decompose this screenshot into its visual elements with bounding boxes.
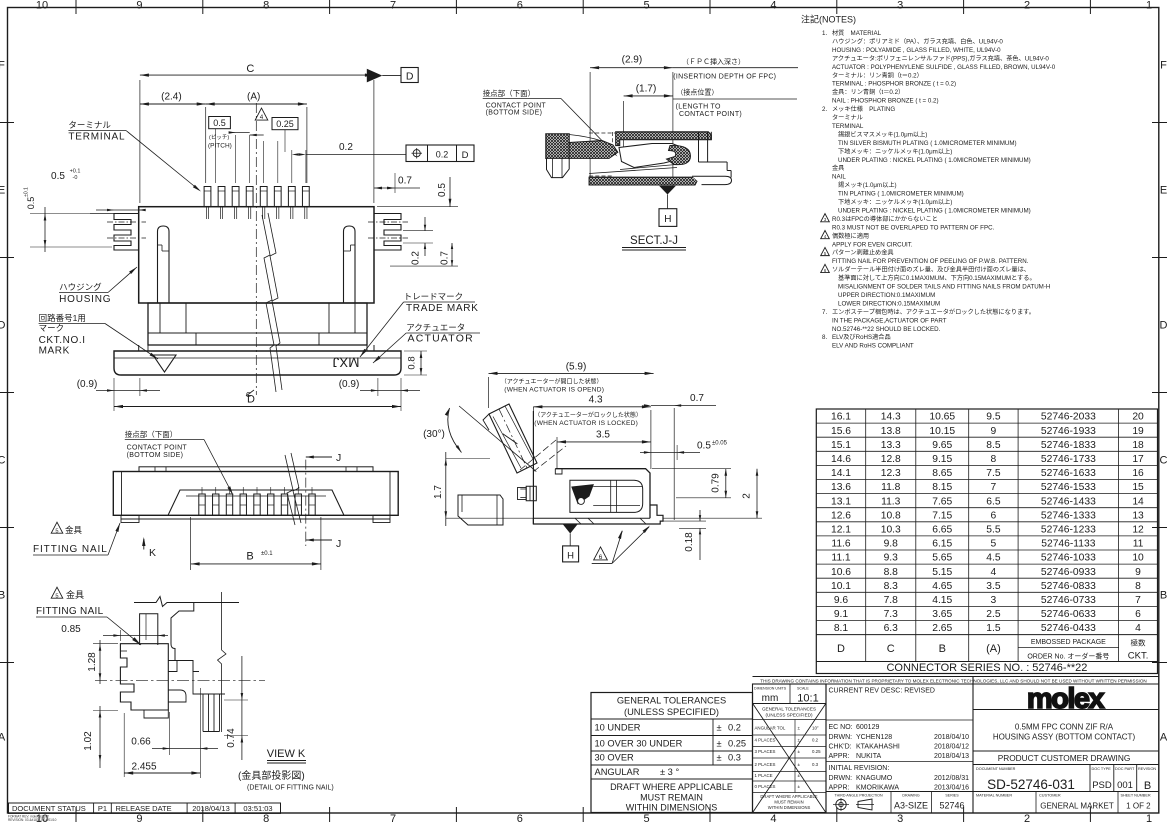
bottom view: fitting nail callout: [51, 522, 63, 533]
svg-text:2.65: 2.65: [932, 623, 952, 634]
svg-text:9.5: 9.5: [986, 412, 1001, 423]
svg-text:SCALE: SCALE: [797, 687, 809, 691]
svg-text:SECT.J-J: SECT.J-J: [630, 235, 678, 247]
crossed-out metric tolerance box: [753, 684, 827, 813]
svg-text:4: 4: [770, 813, 776, 822]
svg-text:1.02: 1.02: [83, 731, 94, 751]
svg-text:0 PLACES: 0 PLACES: [755, 784, 776, 789]
svg-text:MARK: MARK: [39, 346, 70, 357]
centerline symbol: [246, 390, 254, 396]
svg-text:アクチュエータ: アクチュエータ: [406, 323, 465, 333]
svg-text:±0.1: ±0.1: [261, 551, 273, 557]
svg-text:0.25: 0.25: [812, 749, 821, 754]
sect j-j: fpc left block hatched: [546, 134, 569, 159]
svg-text:DOCUMENT NUMBER: DOCUMENT NUMBER: [976, 767, 1016, 771]
svg-text:2: 2: [742, 493, 753, 499]
front view: terminal pins: [204, 187, 211, 207]
svg-text:MISALIGNMENT OF SOLDER TAILS A: MISALIGNMENT OF SOLDER TAILS AND FITTING…: [838, 284, 1050, 291]
svg-text:NAIL: NAIL: [832, 174, 846, 181]
svg-text:INITIAL REVISION:: INITIAL REVISION:: [829, 765, 890, 772]
svg-text:(金具部投影図): (金具部投影図): [238, 769, 305, 782]
svg-text:金具：リン青銅（t＝0.2）: 金具：リン青銅（t＝0.2）: [832, 88, 904, 96]
view k: housing top edge with break: [134, 597, 239, 607]
svg-text:9: 9: [991, 426, 997, 437]
svg-text:(0.9): (0.9): [77, 379, 98, 390]
svg-text:B: B: [1160, 590, 1167, 602]
svg-text:C: C: [1160, 455, 1167, 467]
dims (0.9) left right: [113, 378, 115, 411]
svg-text:1.5: 1.5: [986, 623, 1001, 634]
svg-text:REVISION: 03 &#183; 2014/01/10: REVISION: 03 &#183; 2014/01/10: [8, 818, 57, 822]
sect j-j: fpc arm hatched: [569, 141, 618, 159]
svg-text:13: 13: [1132, 510, 1144, 521]
svg-text:ターミナル: ターミナル: [68, 120, 111, 130]
front view: housing body: [139, 207, 374, 303]
svg-text:APPR:: APPR:: [829, 785, 850, 792]
svg-text:9.8: 9.8: [884, 539, 899, 550]
svg-text:ACTUATOR: ACTUATOR: [408, 333, 474, 345]
svg-text:3: 3: [897, 0, 903, 12]
svg-text:ORDER No. オーダー番号: ORDER No. オーダー番号: [1027, 652, 1109, 661]
sect j-j: bottom hatched bar: [589, 177, 699, 185]
side view: dim (5.9): [488, 377, 490, 408]
svg-text:MXJ: MXJ: [333, 355, 360, 370]
svg-text:H: H: [567, 550, 574, 561]
svg-text:ターミナル：リン青銅（t＝0.2）: ターミナル：リン青銅（t＝0.2）: [832, 71, 923, 79]
svg-text:A3-SIZE: A3-SIZE: [894, 801, 928, 811]
svg-text:1 OF 2: 1 OF 2: [1126, 802, 1151, 811]
svg-text:52746-0833: 52746-0833: [1041, 581, 1096, 592]
svg-text:6: 6: [1135, 609, 1141, 620]
svg-text:(WHEN ACTUATOR IS LOCKED): (WHEN ACTUATOR IS LOCKED): [534, 420, 638, 427]
svg-text:R0.3はFPCの導体部にかからないこと: R0.3はFPCの導体部にかからないこと: [832, 215, 938, 223]
svg-text:ELV AND RoHS COMPLIANT: ELV AND RoHS COMPLIANT: [832, 343, 914, 350]
front view: left fitting nail tab: [114, 214, 139, 251]
svg-text:接点部（下面）: 接点部（下面）: [483, 88, 536, 98]
svg-text:52746-1733: 52746-1733: [1041, 454, 1096, 465]
svg-text:CONNECTOR SERIES NO. : 52746-*: CONNECTOR SERIES NO. : 52746-**22: [886, 662, 1087, 674]
svg-text:0.5: 0.5: [51, 171, 65, 182]
svg-text:1.7: 1.7: [433, 485, 444, 499]
svg-text:7.5: 7.5: [986, 468, 1001, 479]
view k: solder tails: [202, 694, 204, 732]
bottom view: outer body: [113, 472, 398, 516]
svg-text:DOC TYPE: DOC TYPE: [1092, 767, 1112, 771]
svg-text:-0: -0: [73, 175, 78, 181]
svg-text:D: D: [837, 643, 845, 655]
svg-text:±0.1: ±0.1: [24, 187, 30, 197]
svg-text:R0.3 MUST NOT BE OVERLAPED TO: R0.3 MUST NOT BE OVERLAPED TO PATTERN OF…: [832, 224, 995, 231]
svg-text:HOUSING: HOUSING: [59, 294, 111, 305]
svg-text:SHEET NUMBER: SHEET NUMBER: [1121, 794, 1151, 798]
svg-text:J: J: [336, 452, 341, 464]
svg-text:± 3 °: ± 3 °: [660, 767, 679, 777]
svg-text:DIMENSION UNITS: DIMENSION UNITS: [754, 687, 787, 691]
svg-text:(2.9): (2.9): [622, 55, 643, 66]
svg-text:(PITCH): (PITCH): [208, 143, 232, 150]
svg-text:FITTING NAIL FOR PREVENTION OF: FITTING NAIL FOR PREVENTION OF PEELING O…: [832, 258, 1029, 265]
svg-text:(UNLESS SPECIFIED): (UNLESS SPECIFIED): [766, 713, 813, 718]
svg-text:16: 16: [1132, 468, 1144, 479]
svg-text:アクチュエータ:ポリフェニレンサルファド(PPS),ガラス充: アクチュエータ:ポリフェニレンサルファド(PPS),ガラス充填、茶色、UL94V…: [832, 54, 1049, 62]
svg-text:±0.05: ±0.05: [712, 441, 728, 447]
svg-text:EMBOSSED PACKAGE: EMBOSSED PACKAGE: [1031, 639, 1106, 646]
svg-text:10°: 10°: [812, 726, 819, 731]
svg-text:4: 4: [260, 114, 264, 121]
svg-text:10: 10: [1132, 553, 1144, 564]
svg-text:12.6: 12.6: [831, 510, 851, 521]
svg-text:B: B: [939, 643, 946, 655]
svg-text:52746-2033: 52746-2033: [1041, 412, 1096, 423]
svg-text:K: K: [149, 547, 156, 559]
svg-text:5: 5: [55, 593, 58, 599]
view k: lower details and feet: [168, 661, 177, 672]
side view: note 6 triangle with leaders: [594, 547, 608, 560]
svg-text:13.3: 13.3: [881, 440, 901, 451]
svg-text:GENERAL TOLERANCES: GENERAL TOLERANCES: [617, 696, 726, 706]
svg-text:2 PLACES: 2 PLACES: [755, 762, 776, 767]
svg-text:11.3: 11.3: [881, 496, 901, 507]
svg-text:材質 MATERIAL: 材質 MATERIAL: [832, 29, 882, 37]
svg-text:E: E: [0, 185, 5, 197]
svg-text:5.65: 5.65: [932, 553, 952, 564]
svg-text:(INSERTION DEPTH OF FPC): (INSERTION DEPTH OF FPC): [673, 74, 776, 81]
svg-text:52746: 52746: [939, 801, 964, 811]
svg-text:5.5: 5.5: [986, 524, 1001, 535]
svg-text:TRADE MARK: TRADE MARK: [406, 303, 479, 314]
svg-text:52746-1433: 52746-1433: [1041, 496, 1096, 507]
svg-text:1: 1: [1146, 813, 1152, 822]
svg-text:7: 7: [1135, 595, 1141, 606]
svg-text:0.2: 0.2: [339, 142, 353, 153]
svg-text:10.65: 10.65: [929, 412, 955, 423]
svg-text:10:1: 10:1: [797, 693, 818, 705]
svg-text:2012/08/31: 2012/08/31: [934, 775, 969, 782]
svg-text:(BOTTOM SIDE): (BOTTOM SIDE): [127, 452, 184, 459]
sect j-j: solder tail foot: [692, 176, 732, 184]
svg-text:0.7: 0.7: [398, 176, 412, 187]
svg-text:5: 5: [55, 528, 58, 534]
svg-text:0.2: 0.2: [812, 738, 819, 743]
svg-text:PSD: PSD: [1092, 780, 1112, 791]
svg-text:52746-1233: 52746-1233: [1041, 524, 1096, 535]
svg-text:0.2: 0.2: [411, 251, 422, 265]
svg-text:12.8: 12.8: [881, 454, 901, 465]
svg-text:10 UNDER: 10 UNDER: [595, 723, 641, 733]
svg-text:(30°): (30°): [423, 429, 445, 440]
svg-text:±: ±: [717, 753, 722, 763]
svg-text:0.2: 0.2: [728, 723, 741, 733]
svg-text:7: 7: [390, 0, 396, 12]
svg-text:D: D: [0, 320, 6, 332]
svg-text:C: C: [0, 455, 6, 467]
front view: right fitting nail tab: [374, 214, 401, 251]
view k: dim 1.02: [93, 710, 118, 712]
svg-text:DRAFT WHERE APPLICABLE: DRAFT WHERE APPLICABLE: [760, 794, 817, 799]
svg-text:KTAKAHASHI: KTAKAHASHI: [856, 744, 900, 751]
svg-text:接点部（下面）: 接点部（下面）: [125, 429, 178, 439]
bottom view: contact pins: [199, 494, 205, 515]
side view: locked position dashed: [520, 440, 556, 470]
svg-text:H: H: [664, 214, 671, 225]
svg-text:メッキ仕様 PLATING: メッキ仕様 PLATING: [832, 105, 895, 113]
side view: inner cavity: [570, 480, 643, 512]
svg-text:18: 18: [1132, 440, 1144, 451]
svg-text:4.15: 4.15: [932, 595, 952, 606]
svg-text:4.5: 4.5: [986, 553, 1001, 564]
svg-text:8.8: 8.8: [884, 567, 899, 578]
svg-text:9: 9: [136, 813, 142, 822]
svg-text:11.8: 11.8: [881, 482, 901, 493]
svg-text:9: 9: [136, 0, 142, 12]
bottom view: B dim: [190, 517, 192, 570]
svg-text:03:51:03: 03:51:03: [243, 804, 272, 813]
svg-text:（接点位置）: （接点位置）: [676, 88, 718, 97]
svg-text:14.1: 14.1: [831, 468, 851, 479]
svg-text:2: 2: [1024, 0, 1030, 12]
svg-text:6: 6: [599, 554, 603, 561]
svg-text:錫銀ビスマスメッキ(1.0μm以上): 錫銀ビスマスメッキ(1.0μm以上): [838, 130, 927, 138]
svg-text:FITTING NAIL: FITTING NAIL: [33, 544, 108, 555]
svg-text:0.5: 0.5: [213, 118, 226, 128]
svg-text:9: 9: [1135, 567, 1141, 578]
proprietary notice band: [753, 676, 1159, 678]
svg-text:3.5: 3.5: [596, 430, 610, 441]
svg-text:0.5: 0.5: [26, 197, 36, 210]
svg-text:52746-1833: 52746-1833: [1041, 440, 1096, 451]
front view: vertical centerline: [255, 103, 257, 395]
svg-text:10.6: 10.6: [831, 567, 851, 578]
svg-text:MATERIAL NUMBER: MATERIAL NUMBER: [976, 794, 1012, 798]
svg-text:F: F: [0, 60, 5, 72]
svg-text:9.1: 9.1: [834, 609, 849, 620]
svg-text:CUSTOMER: CUSTOMER: [1039, 794, 1061, 798]
svg-text:0.79: 0.79: [711, 473, 722, 493]
svg-text:0.66: 0.66: [131, 737, 151, 748]
svg-text:0.8: 0.8: [407, 356, 418, 369]
svg-text:マーク: マーク: [39, 323, 65, 333]
svg-text:9.65: 9.65: [932, 440, 952, 451]
svg-text:2018/04/12: 2018/04/12: [934, 744, 969, 751]
svg-text:DRAWING: DRAWING: [902, 794, 919, 798]
svg-text:11.6: 11.6: [831, 539, 851, 550]
svg-text:(2.4): (2.4): [161, 92, 182, 103]
svg-text:WITHIN DIMENSIONS: WITHIN DIMENSIONS: [768, 805, 811, 810]
svg-text:14.6: 14.6: [831, 454, 851, 465]
svg-text:D: D: [462, 150, 469, 161]
front view: ckt no.1 mark triangle: [153, 355, 176, 372]
svg-text:±: ±: [717, 723, 722, 733]
svg-text:APPR:: APPR:: [829, 753, 850, 760]
revision / approval block: [825, 684, 827, 813]
svg-text:(LENGTH TO: (LENGTH TO: [676, 104, 721, 111]
side view: dim 1.7: [446, 458, 490, 460]
svg-text:8: 8: [263, 813, 269, 822]
svg-text:P1: P1: [98, 804, 107, 813]
svg-text:ターミナル: ターミナル: [832, 114, 863, 122]
svg-text:6: 6: [517, 0, 523, 12]
svg-text:13.8: 13.8: [881, 426, 901, 437]
svg-text:REVISION: REVISION: [1138, 767, 1156, 771]
front view: latch slots: [158, 226, 170, 303]
side view: dim 3.5: [556, 437, 558, 468]
svg-text:トレードマーク: トレードマーク: [404, 292, 464, 302]
dimension 0.2 with position frame: [291, 150, 293, 183]
svg-text:GENERAL MARKET: GENERAL MARKET: [1040, 802, 1114, 811]
svg-text:1 PLACE: 1 PLACE: [755, 773, 773, 778]
svg-text:C: C: [887, 643, 895, 655]
svg-text:8.: 8.: [822, 334, 827, 341]
svg-text:14: 14: [1132, 496, 1144, 507]
svg-text:DOC PART: DOC PART: [1115, 767, 1135, 771]
svg-text:5: 5: [644, 0, 650, 12]
svg-text:KMORIKAWA: KMORIKAWA: [856, 785, 899, 792]
svg-text:8: 8: [991, 454, 997, 465]
svg-text:DRWN:: DRWN:: [829, 734, 853, 741]
svg-text:19: 19: [1132, 426, 1144, 437]
svg-text:0.5MM FPC CONN ZIF R/A: 0.5MM FPC CONN ZIF R/A: [1015, 723, 1114, 732]
svg-text:13.1: 13.1: [831, 496, 851, 507]
svg-text:0.2: 0.2: [436, 150, 449, 160]
svg-text:THIRD ANGLE PROJECTION: THIRD ANGLE PROJECTION: [834, 794, 883, 798]
document status bar: [9, 803, 281, 813]
svg-text:A: A: [1160, 732, 1167, 744]
svg-text:UNDER PLATING : NICKEL PLATING: UNDER PLATING : NICKEL PLATING ( 1.0MICR…: [838, 157, 1031, 164]
bottom view: bottom strip and feet: [121, 518, 390, 520]
sect j-j: actuator top hatched bar: [616, 132, 712, 146]
svg-text:B: B: [246, 551, 253, 563]
svg-text:7.65: 7.65: [932, 496, 952, 507]
svg-text:エンボステープ梱包時は、アクチュエータがロックした状態になり: エンボステープ梱包時は、アクチュエータがロックした状態になります。: [832, 308, 1035, 316]
svg-text:(ピッチ): (ピッチ): [209, 134, 229, 141]
right side dims 0.7 / 0.5 / 0.2 / 0.7: [374, 187, 420, 189]
svg-text:7.: 7.: [822, 309, 827, 316]
svg-text:30 OVER: 30 OVER: [595, 753, 635, 763]
svg-text:5: 5: [991, 539, 997, 550]
svg-text:YCHEN128: YCHEN128: [856, 734, 892, 741]
svg-text:TIN PLATING ( 1.0MICROMETER MI: TIN PLATING ( 1.0MICROMETER MINIMUM): [838, 191, 964, 198]
svg-text:APPLY FOR EVEN CIRCUIT.: APPLY FOR EVEN CIRCUIT.: [832, 241, 913, 248]
svg-text:9.15: 9.15: [932, 454, 952, 465]
svg-text:GENERAL TOLERANCES: GENERAL TOLERANCES: [762, 707, 816, 712]
svg-text:52746-1933: 52746-1933: [1041, 426, 1096, 437]
svg-text:SD-52746-031: SD-52746-031: [987, 777, 1075, 792]
sect j-j: datum H: [659, 186, 676, 195]
svg-text:UNDER PLATING : NICKEL PLATING: UNDER PLATING : NICKEL PLATING ( 1.0MICR…: [838, 207, 1031, 214]
svg-text:ELV及びRoHS適合品: ELV及びRoHS適合品: [832, 333, 891, 341]
svg-text:WITHIN DIMENSIONS: WITHIN DIMENSIONS: [626, 803, 718, 813]
svg-text:15.1: 15.1: [831, 440, 851, 451]
svg-text:ソルダーテール半田付け面のズレ量、及び金具半田付け面のズレ量: ソルダーテール半田付け面のズレ量、及び金具半田付け面のズレ量は、: [832, 266, 1030, 274]
svg-text:0.74: 0.74: [226, 728, 237, 748]
svg-text:12.1: 12.1: [831, 524, 851, 535]
svg-text:B: B: [1144, 780, 1151, 792]
svg-text:5: 5: [644, 813, 650, 822]
svg-text:3: 3: [897, 813, 903, 822]
side view: dim 0.7: [673, 408, 675, 520]
svg-text:錫メッキ(1.0μm以上): 錫メッキ(1.0μm以上): [838, 181, 897, 189]
svg-text:52746-0633: 52746-0633: [1041, 609, 1096, 620]
svg-text:UPPER DIRECTION:0.1MAXIMUM: UPPER DIRECTION:0.1MAXIMUM: [838, 292, 935, 299]
svg-text:0.25: 0.25: [276, 119, 294, 129]
svg-text:001: 001: [1117, 780, 1133, 791]
pitch dims 0.5 / 0.25 with note 4: [209, 117, 231, 129]
svg-text:CKT.NO.I: CKT.NO.I: [39, 335, 86, 346]
svg-text:PRODUCT CUSTOMER DRAWING: PRODUCT CUSTOMER DRAWING: [998, 753, 1131, 763]
svg-text:±: ±: [717, 739, 722, 749]
svg-text:NAIL : PHOSPHOR BRONZE ( t = 0: NAIL : PHOSPHOR BRONZE ( t = 0.2): [832, 98, 939, 105]
dimension (2.4) and (A): [205, 107, 207, 183]
svg-text:6.5: 6.5: [986, 496, 1001, 507]
svg-text:17: 17: [1132, 454, 1144, 465]
side view: dim 0.18: [663, 520, 706, 522]
svg-text:15.6: 15.6: [831, 426, 851, 437]
svg-text:EC NO:: EC NO:: [829, 724, 853, 731]
svg-text:0.3: 0.3: [728, 753, 741, 763]
svg-text:52746-0433: 52746-0433: [1041, 623, 1096, 634]
svg-text:10.15: 10.15: [929, 426, 955, 437]
svg-text:MUST REMAIN: MUST REMAIN: [774, 800, 803, 805]
svg-text:2018/04/13: 2018/04/13: [192, 804, 230, 813]
svg-text:NUKITA: NUKITA: [856, 753, 881, 760]
side view: dim 2: [663, 517, 762, 519]
view k: nail vertical tab: [140, 614, 158, 645]
svg-text:4: 4: [991, 567, 997, 578]
svg-text:金具: 金具: [65, 525, 83, 535]
svg-text:8.5: 8.5: [986, 440, 1001, 451]
svg-text:CKT.: CKT.: [1128, 651, 1149, 662]
front view: actuator base plate: [114, 351, 401, 375]
svg-text:DRAFT WHERE APPLICABLE: DRAFT WHERE APPLICABLE: [610, 782, 733, 792]
sect j-j: lower contact lines: [589, 168, 677, 174]
svg-text:3 PLACES: 3 PLACES: [755, 749, 776, 754]
svg-text:8.15: 8.15: [932, 482, 952, 493]
svg-text:3.5: 3.5: [986, 581, 1001, 592]
svg-text:molex: molex: [1027, 683, 1105, 715]
svg-text:下地メッキ：ニッケルメッキ(1.0μm以上): 下地メッキ：ニッケルメッキ(1.0μm以上): [838, 147, 952, 155]
general tolerances box: [591, 693, 753, 813]
svg-text:2013/04/16: 2013/04/16: [934, 785, 969, 792]
svg-text:B: B: [0, 590, 5, 602]
view k: horizontal centerline: [95, 679, 265, 681]
svg-text:52746-1033: 52746-1033: [1041, 553, 1096, 564]
svg-text:600129: 600129: [856, 724, 879, 731]
svg-text:(A): (A): [247, 92, 260, 103]
side view: dim 4.3: [650, 410, 652, 469]
svg-text:8: 8: [263, 0, 269, 12]
bottom view: inner recess: [168, 490, 344, 515]
svg-text:13.6: 13.6: [831, 482, 851, 493]
svg-text:5.15: 5.15: [932, 567, 952, 578]
svg-text:2018/04/10: 2018/04/10: [934, 734, 969, 741]
svg-text:8.3: 8.3: [884, 581, 899, 592]
svg-text:KNAGUMO: KNAGUMO: [856, 775, 893, 782]
svg-text:4: 4: [1135, 623, 1141, 634]
side view: actuator lower arm: [458, 495, 503, 525]
svg-text:0.25: 0.25: [728, 739, 746, 749]
svg-text:12: 12: [1132, 524, 1144, 535]
svg-text:4 PLACES: 4 PLACES: [755, 738, 776, 743]
view k: dim 1.28: [93, 643, 118, 645]
svg-text:TERMINAL : PHOSPHOR BRONZE ( t: TERMINAL : PHOSPHOR BRONZE ( t = 0.2): [832, 81, 956, 88]
svg-text:（アクチュエーターが開口した状態）: （アクチュエーターが開口した状態）: [501, 378, 603, 386]
svg-text:(BOTTOM SIDE): (BOTTOM SIDE): [486, 110, 543, 117]
svg-text:ACTUATOR : POLYPHENYLENE SULFI: ACTUATOR : POLYPHENYLENE SULFIDE , GLASS…: [832, 64, 1056, 71]
svg-text:7.15: 7.15: [932, 510, 952, 521]
svg-text:CONTACT POINT: CONTACT POINT: [127, 445, 188, 452]
svg-text:0.5: 0.5: [697, 441, 711, 452]
svg-text:2018/04/13: 2018/04/13: [934, 753, 969, 760]
